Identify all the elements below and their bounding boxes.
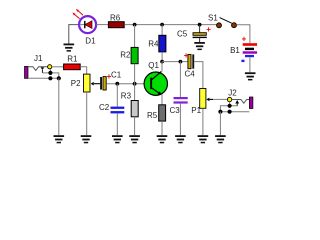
- svg-text:J1: J1: [34, 54, 43, 63]
- svg-text:J2: J2: [228, 88, 237, 97]
- resistor R1: [64, 64, 81, 70]
- wire: rail to R2: [134, 25, 136, 48]
- wire: S1 to battery: [237, 25, 250, 43]
- wire: R3 to ground: [134, 117, 136, 135]
- wire: node to C2: [116, 84, 118, 107]
- node rail-R2: [133, 23, 137, 27]
- wire: C3 to ground: [179, 104, 181, 136]
- wire: P1 bottom to ground: [202, 108, 204, 135]
- wire: C1 to Q1 base: [106, 83, 150, 85]
- node rail-C5: [198, 23, 202, 27]
- svg-text:P2: P2: [71, 79, 81, 88]
- node base/R2/R3: [133, 82, 137, 86]
- wire: J1 tip to R1: [52, 66, 64, 68]
- wire: LED cathode to ground: [69, 25, 78, 44]
- resistor R2: [131, 47, 138, 63]
- wire: LED anode to R6: [96, 24, 108, 26]
- resistor R5: [159, 105, 166, 121]
- ground (C2): [112, 135, 123, 143]
- node C2: [115, 82, 119, 86]
- svg-text:R5: R5: [147, 111, 158, 120]
- wire: C3 node down: [179, 62, 181, 97]
- wire: R4 to collector node: [161, 52, 163, 62]
- wire: J2 sleeve to ground: [219, 112, 221, 136]
- node rail-R4: [160, 23, 164, 27]
- ground (C5): [194, 42, 205, 50]
- capacitor C5: [193, 25, 212, 42]
- ground (P1): [198, 135, 209, 143]
- node C3: [179, 60, 183, 64]
- capacitor C2: [111, 107, 125, 114]
- svg-text:+: +: [242, 34, 247, 43]
- svg-text:C4: C4: [185, 70, 196, 79]
- svg-text:+: +: [206, 25, 211, 34]
- svg-text:D1: D1: [85, 37, 96, 46]
- wire: P1 wiper to J2 tip: [213, 98, 227, 100]
- ground (P2): [81, 135, 92, 143]
- wire: collector lead: [161, 62, 163, 72]
- wire: battery to ground: [249, 57, 251, 72]
- jack J1: [25, 65, 61, 81]
- switch S1: [217, 18, 237, 28]
- ground (B1): [245, 72, 256, 80]
- svg-text:Q1: Q1: [148, 61, 159, 70]
- wire: J1 sleeve to ground: [58, 78, 60, 135]
- svg-text:C5: C5: [177, 29, 188, 38]
- LED D1: [72, 9, 96, 33]
- wire: P2 bottom to ground: [86, 92, 88, 135]
- wire: rail to R4: [161, 25, 163, 36]
- wire: C4 to P1 top: [194, 62, 203, 89]
- svg-text:C1: C1: [111, 70, 122, 79]
- wire: R1 to P2 top: [80, 67, 87, 74]
- resistor R4: [159, 35, 166, 52]
- wire: R5 to ground: [161, 121, 163, 135]
- jack J2: [218, 97, 253, 114]
- ground (R5): [157, 135, 168, 143]
- svg-text:S1: S1: [208, 13, 218, 22]
- node collector: [160, 60, 164, 64]
- svg-text:R6: R6: [110, 13, 121, 22]
- resistor R6: [108, 22, 124, 28]
- svg-text:R1: R1: [67, 55, 78, 64]
- pot P1: [200, 89, 213, 109]
- pot P2: [84, 74, 101, 92]
- ground (LED): [64, 44, 75, 52]
- transistor Q1: [144, 72, 167, 96]
- wire: collector line to C4: [162, 61, 188, 63]
- wire: R2 to base node: [134, 64, 136, 84]
- ground (J1): [54, 135, 65, 143]
- svg-text:R2: R2: [120, 50, 131, 59]
- svg-text:C3: C3: [170, 106, 181, 115]
- svg-text:+: +: [184, 51, 189, 60]
- battery B1: [241, 34, 257, 62]
- svg-text:R3: R3: [121, 91, 132, 100]
- svg-text:C2: C2: [99, 103, 110, 112]
- capacitor C4: [184, 51, 195, 69]
- resistor R3: [131, 101, 138, 117]
- wire: top supply rail: [124, 24, 217, 26]
- svg-text:R4: R4: [148, 40, 159, 49]
- wire: base node to R3: [134, 84, 136, 101]
- wire: emitter lead: [161, 95, 163, 105]
- ground (R3): [129, 135, 140, 143]
- svg-text:B1: B1: [230, 46, 240, 55]
- ground (J2): [215, 135, 226, 143]
- ground (C3): [175, 135, 186, 143]
- capacitor C3: [174, 97, 188, 104]
- wire: C2 to ground: [116, 113, 118, 135]
- svg-text:P1: P1: [191, 106, 201, 115]
- capacitor C1: [100, 72, 112, 90]
